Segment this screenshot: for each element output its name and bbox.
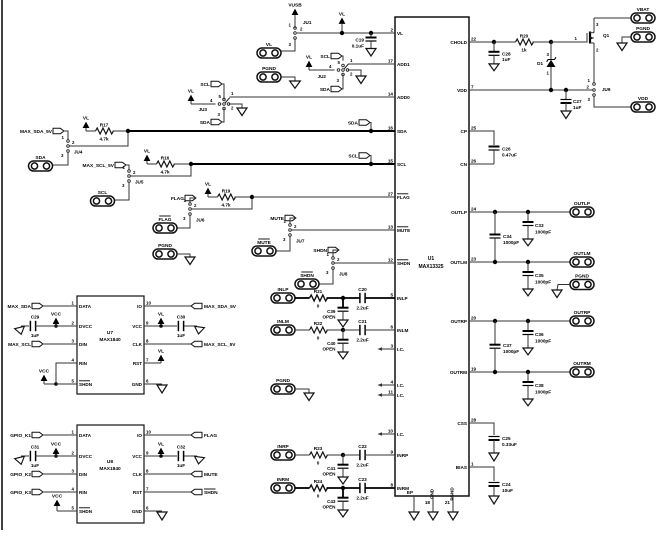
resistor R17 4.7k: [96, 123, 114, 142]
svg-text:GPIO_K1: GPIO_K1: [10, 433, 31, 439]
svg-text:MAX_SCL_5V: MAX_SCL_5V: [83, 163, 115, 169]
U7 pin 5 SHDN: [72, 378, 93, 386]
wire flag to JU4 pin1: [64, 131, 68, 140]
svg-text:SHDN: SHDN: [300, 273, 314, 279]
resistor R24 0: [310, 479, 328, 499]
svg-text:MUTE: MUTE: [204, 472, 218, 478]
svg-text:INLP: INLP: [278, 287, 290, 293]
svg-text:R19: R19: [222, 189, 231, 194]
capacitor C21 2.2uF: [356, 319, 368, 343]
wire C20 to U1: [365, 297, 396, 299]
ground C27: [561, 111, 571, 119]
wire flag to JU8 pin1: [333, 250, 339, 257]
power VL at JU2: [306, 55, 313, 70]
svg-text:VL: VL: [397, 31, 403, 36]
U1 pin 15 SCL: [388, 158, 407, 166]
svg-text:IO: IO: [137, 433, 142, 438]
wire SCL flag to JU2 pin5: [342, 56, 343, 61]
ground lower-left: [304, 393, 314, 401]
ground C25: [489, 453, 499, 461]
ground mid-left: [185, 257, 195, 265]
wire OUTRP to connector: [469, 320, 570, 322]
wire VL to JU2 pin4: [309, 69, 335, 71]
svg-text:SDA: SDA: [320, 87, 331, 93]
svg-text:VL: VL: [306, 55, 312, 61]
wire SHDN pin5: [56, 383, 77, 385]
power VCC at SHDN: [39, 369, 58, 386]
svg-text:SDA: SDA: [35, 155, 46, 161]
svg-text:VL: VL: [144, 149, 150, 155]
svg-text:PGND: PGND: [450, 487, 455, 501]
ground C24: [489, 496, 499, 504]
svg-text:R20: R20: [520, 34, 529, 39]
wire PGND to ground top-right: [622, 37, 631, 43]
ground C31: [15, 456, 29, 466]
svg-text:OPEN: OPEN: [322, 315, 336, 320]
svg-text:OUTRP: OUTRP: [574, 310, 592, 316]
node VDD junction C27: [564, 88, 568, 92]
resistor R16 4.7k: [157, 156, 175, 175]
svg-text:U1: U1: [428, 256, 435, 262]
wire node to C21: [343, 329, 361, 331]
svg-text:MUTE: MUTE: [257, 240, 271, 246]
flag MAX_SCL: [8, 341, 43, 348]
ground C40: [338, 352, 348, 359]
wire PGND to ground mid-left: [177, 254, 190, 257]
svg-text:MAX_SCL: MAX_SCL: [8, 342, 31, 348]
svg-text:2.2uF: 2.2uF: [356, 338, 368, 343]
U1 pin 28 CSS: [457, 417, 476, 425]
svg-text:OUTLP: OUTLP: [574, 201, 591, 207]
U1 pin 19 OUTRM: [450, 366, 477, 374]
svg-text:4.7k: 4.7k: [160, 170, 170, 175]
wire C22 to U1: [365, 454, 396, 456]
node OUTLP junction 2: [526, 210, 530, 214]
svg-text:27: 27: [388, 191, 394, 196]
svg-text:SCL: SCL: [397, 162, 407, 167]
svg-text:I.C.: I.C.: [397, 393, 404, 398]
resistor R19 4.7k: [218, 189, 236, 208]
svg-text:R24: R24: [314, 479, 323, 484]
svg-text:SCL: SCL: [98, 190, 108, 196]
svg-text:C30: C30: [177, 315, 186, 320]
wire JU4 pin3 to SDA connector: [53, 153, 69, 166]
U8 pin 10 IO: [137, 429, 151, 437]
U8 pin 4 RIN: [72, 486, 88, 494]
U1 pin 2 VL: [390, 27, 403, 35]
U1 pin 24 OUTLP: [451, 206, 476, 214]
svg-text:1k: 1k: [521, 48, 527, 53]
svg-text:BIAS: BIAS: [456, 465, 467, 470]
resistor R20 1k: [516, 34, 534, 53]
flag GPIO_K2: [10, 471, 43, 478]
power VL at VCC pin: [144, 312, 177, 328]
U1 pin 22 CHOLD: [450, 36, 476, 44]
wire node to C23: [343, 487, 361, 489]
U1 pin 20 OUTRP: [451, 315, 477, 323]
wire SCL flag drop: [370, 156, 371, 163]
svg-text:15: 15: [388, 158, 394, 163]
U8 pin 8 CLK: [133, 468, 149, 476]
wire PGND to ground: [281, 77, 295, 81]
U7 pin 7 RST: [133, 357, 149, 365]
power VL at VCC pin: [144, 442, 177, 458]
svg-text:R23: R23: [314, 446, 323, 451]
capacitor C43 OPEN: [322, 488, 348, 510]
svg-text:C27: C27: [573, 99, 582, 104]
svg-text:VL: VL: [158, 312, 164, 318]
U8 pin 6 GND: [132, 505, 149, 513]
svg-text:SDA: SDA: [348, 121, 359, 127]
IC U8 MAX1840 level translator: [77, 425, 144, 523]
jumper JU1: [289, 20, 312, 47]
flag FLAG at JU6: [171, 195, 196, 202]
flag GPIO_K3: [10, 489, 43, 496]
wire BIAS to C24: [469, 467, 494, 481]
svg-text:26: 26: [471, 158, 477, 163]
capacitor C22 2.2uF: [356, 444, 368, 468]
svg-text:FLAG: FLAG: [397, 195, 410, 200]
svg-text:0.33uF: 0.33uF: [502, 442, 517, 447]
svg-text:C22: C22: [358, 444, 367, 449]
svg-text:VL: VL: [266, 42, 272, 48]
svg-text:RST: RST: [133, 361, 142, 366]
svg-text:25: 25: [471, 125, 477, 130]
svg-text:DVCC: DVCC: [79, 324, 93, 329]
node OUTRM junction 1: [493, 370, 497, 374]
svg-text:VBAT: VBAT: [637, 7, 650, 13]
ground top-left PGND: [290, 81, 301, 88]
U1 pin 16 SDA: [388, 125, 408, 133]
svg-text:U8: U8: [107, 459, 113, 465]
connector PGND lower-left: [271, 378, 295, 394]
svg-text:MAX1840: MAX1840: [99, 337, 121, 343]
svg-text:11: 11: [388, 389, 393, 394]
wire CP to C26: [469, 131, 494, 145]
wire RIN to SHDN junction: [56, 363, 77, 384]
svg-text:CSS: CSS: [457, 421, 467, 426]
svg-text:13: 13: [388, 224, 394, 229]
svg-text:MUTE: MUTE: [397, 228, 410, 233]
wire R21 to node: [327, 297, 344, 299]
svg-text:DIN: DIN: [79, 342, 88, 347]
wire node to C20: [343, 297, 361, 299]
svg-text:C35: C35: [535, 273, 544, 278]
U7 pin 8 CLK: [133, 338, 149, 346]
wire OUTLP to connector: [469, 211, 570, 213]
node INRP junction: [341, 453, 345, 457]
wire JU3 pin2 to ground: [229, 104, 242, 108]
power VCC at DVCC: [51, 442, 62, 458]
svg-text:8: 8: [390, 482, 393, 487]
svg-text:RIN: RIN: [79, 490, 88, 495]
node OUTRP junction 2: [526, 319, 530, 323]
wire PGND to ground outputs: [557, 285, 570, 291]
svg-text:SHDN: SHDN: [397, 261, 411, 266]
U1 pin 23 OUTLM: [450, 256, 476, 264]
connector SHDN: [295, 272, 319, 289]
wire JU6 pin3 to FLAG connector: [178, 216, 191, 229]
wire R20 to gate node: [533, 41, 550, 43]
flag MAX_SDA_5V: [144, 303, 237, 310]
jumper JU8: [326, 252, 348, 277]
svg-text:C36: C36: [535, 332, 544, 337]
svg-text:R17: R17: [100, 123, 109, 128]
flag MAX_SDA_5V: [20, 128, 64, 135]
svg-text:12: 12: [388, 257, 394, 262]
connector VBAT: [631, 7, 655, 23]
svg-text:VCC: VCC: [51, 312, 62, 318]
capacitor C27 1uF: [561, 90, 582, 111]
svg-text:C25: C25: [502, 436, 511, 441]
wire JU6 pin2 to FLAG node: [192, 199, 253, 209]
svg-text:1uF: 1uF: [31, 333, 39, 338]
svg-text:INLM: INLM: [397, 328, 409, 333]
flag MUTE: [144, 471, 218, 478]
capacitor C41 OPEN: [322, 455, 348, 477]
connector INLM: [271, 319, 295, 335]
svg-text:MAX13325: MAX13325: [418, 264, 443, 270]
wire JU5 pin2 to SCL node: [131, 166, 192, 176]
U7 pin 1 DATA: [72, 300, 92, 308]
svg-text:CN: CN: [460, 162, 467, 167]
svg-text:18: 18: [425, 500, 431, 505]
jumper JU2: [318, 58, 353, 83]
svg-text:1uF: 1uF: [31, 463, 39, 468]
flag MUTE at JU7: [270, 215, 296, 222]
connector SDA: [29, 155, 53, 171]
wire OUTRM to connector: [469, 371, 570, 373]
svg-text:ADD1: ADD1: [397, 62, 410, 67]
power VL at RST: [144, 349, 164, 363]
node INLM junction: [341, 328, 345, 332]
jumper JU4: [61, 135, 83, 158]
wire CHOLD: [469, 41, 492, 43]
svg-text:C38: C38: [535, 383, 544, 388]
wire flag to JU6 pin1: [190, 198, 196, 203]
svg-text:1uF: 1uF: [502, 57, 510, 62]
ground outputs: [552, 290, 562, 298]
connector OUTLP: [570, 201, 594, 217]
svg-text:JU7: JU7: [296, 239, 305, 244]
capacitor C37 1000pF: [490, 321, 520, 372]
svg-text:U7: U7: [107, 330, 113, 336]
svg-text:VUSB: VUSB: [288, 3, 302, 9]
U1 pin 1 BIAS: [456, 461, 474, 469]
svg-text:C40: C40: [327, 341, 336, 346]
capacitor C34 1000pF: [490, 212, 520, 262]
wire GND pin: [144, 383, 162, 385]
svg-text:1: 1: [471, 461, 474, 466]
svg-text:23: 23: [471, 256, 477, 261]
svg-text:C26: C26: [502, 147, 511, 152]
svg-text:INRP: INRP: [397, 453, 408, 458]
ground C19: [366, 49, 376, 57]
svg-text:17: 17: [388, 58, 394, 63]
wire R17 to SDA node: [113, 130, 127, 132]
svg-text:0.1uF: 0.1uF: [352, 44, 364, 49]
ground GND pin: [428, 512, 438, 520]
capacitor C26 0.47uF: [489, 147, 517, 165]
U1 pin 6 INLM: [390, 324, 408, 332]
wire flag to DATA: [43, 305, 77, 307]
svg-text:C20: C20: [358, 287, 367, 292]
svg-text:VL: VL: [188, 89, 194, 95]
U1 pin 26 CN: [460, 158, 476, 166]
ground C33: [523, 239, 533, 246]
svg-text:VL: VL: [83, 116, 89, 122]
node OUTRP junction 1: [493, 319, 497, 323]
svg-text:GPIO_K3: GPIO_K3: [10, 490, 31, 496]
svg-text:C23: C23: [358, 477, 367, 482]
svg-text:PGND: PGND: [276, 378, 290, 384]
wire node to C22: [343, 454, 361, 456]
wire flag to JU7 pin1: [290, 218, 296, 224]
node OUTRM junction 2: [526, 370, 530, 374]
svg-text:5: 5: [390, 292, 393, 297]
U1 pin 5 INLP: [390, 292, 407, 300]
svg-text:C33: C33: [535, 223, 544, 228]
capacitor C24 10uF: [489, 482, 514, 496]
svg-text:CP: CP: [460, 129, 467, 134]
svg-text:1uF: 1uF: [177, 333, 185, 338]
connector FLAG: [153, 216, 177, 233]
U7 pin 6 GND: [132, 378, 149, 386]
ground JU3: [237, 108, 247, 116]
svg-text:C29: C29: [31, 315, 40, 320]
capacitor C19 0.1uF: [352, 31, 377, 49]
jumper JU9: [587, 78, 611, 102]
svg-text:R21: R21: [314, 289, 323, 294]
svg-text:FLAG: FLAG: [204, 433, 217, 439]
connector PGND mid-left: [153, 243, 177, 259]
U1 pin 4 I.C.: [390, 379, 404, 387]
svg-text:SHDN: SHDN: [79, 509, 93, 514]
wire flag to DATA: [43, 434, 77, 436]
ground C38: [523, 399, 533, 406]
wire VL to R19: [208, 196, 218, 198]
flag MAX_SCL_5V: [144, 341, 236, 348]
U8 pin 5 SHDN: [72, 505, 93, 513]
svg-text:DATA: DATA: [79, 304, 92, 309]
U7 pin 4 RIN: [72, 357, 88, 365]
svg-text:1uF: 1uF: [573, 105, 581, 110]
wire SCL flag to JU3 pin5: [222, 84, 224, 100]
U1 pin 7 VDD: [457, 84, 474, 92]
transistor Q1: [590, 18, 610, 53]
svg-text:INRM: INRM: [277, 477, 289, 483]
svg-text:4.7k: 4.7k: [221, 203, 231, 208]
U8 pin 1 DATA: [72, 429, 92, 437]
svg-text:DIN: DIN: [79, 472, 88, 477]
wire R23 to node: [327, 454, 344, 456]
svg-text:INLP: INLP: [397, 296, 408, 301]
U1 pin 10 I.C.: [388, 428, 404, 436]
jumper JU5: [122, 165, 144, 188]
svg-text:16: 16: [388, 125, 394, 130]
svg-text:21: 21: [445, 500, 451, 505]
node OUTLP junction 1: [493, 210, 497, 214]
svg-text:RIN: RIN: [79, 361, 88, 366]
jumper JU6: [183, 198, 205, 223]
svg-text:SHDN: SHDN: [79, 382, 93, 387]
svg-text:VCC: VCC: [51, 442, 62, 448]
wire INLP to resistor: [295, 297, 310, 299]
connector VL: [257, 42, 281, 58]
svg-text:GND: GND: [132, 509, 143, 514]
svg-text:JU6: JU6: [196, 218, 205, 223]
svg-text:DVCC: DVCC: [79, 454, 93, 459]
ground JU2: [356, 76, 366, 84]
power VL at JU3: [188, 89, 195, 104]
ground U7 GND: [157, 385, 167, 393]
wire VL to JU3 pin4: [191, 103, 216, 105]
wire OUTLM to connector: [469, 261, 570, 263]
flag SDA at JU2: [320, 86, 342, 93]
connector PGND top-left: [257, 66, 281, 82]
connector OUTLM: [570, 251, 594, 267]
connector MUTE: [252, 239, 276, 256]
svg-text:ADD0: ADD0: [397, 95, 410, 100]
svg-text:SHDN: SHDN: [204, 490, 218, 496]
svg-text:CLK: CLK: [133, 472, 143, 477]
svg-text:OUTRM: OUTRM: [450, 370, 467, 375]
svg-text:Q1: Q1: [603, 33, 610, 38]
U8 pin 3 DIN: [72, 468, 88, 476]
capacitor C40 OPEN: [322, 330, 348, 352]
node SDA junction: [126, 129, 130, 133]
U1 pin 14 ADD0: [388, 91, 410, 99]
node VDD junction D1: [549, 88, 553, 92]
svg-text:OUTRM: OUTRM: [573, 361, 591, 367]
U8 pin 7 RST: [133, 486, 149, 494]
ground C29: [15, 326, 29, 336]
svg-text:I.C.: I.C.: [397, 432, 404, 437]
U1 pin 21 PGND: [445, 487, 455, 512]
node CHOLD junction C28: [492, 40, 496, 44]
wire JU5 pin3 to SCL connector: [115, 183, 130, 201]
wire I.C. stub pin y=349: [379, 348, 395, 350]
U1 pin 27 FLAG: [388, 191, 410, 199]
U1 pin 3 I.C.: [390, 343, 404, 351]
node FLAG junction: [250, 195, 254, 199]
node SCL junction: [189, 162, 193, 166]
wire flag to RIN: [43, 491, 77, 493]
svg-text:CHOLD: CHOLD: [450, 40, 467, 45]
svg-text:VL: VL: [158, 442, 164, 448]
wire JU4 pin2 to SDA node: [70, 133, 129, 146]
wire JU3 pin3 to SDA flag: [222, 109, 224, 123]
U1 pin 12 SHDN: [388, 257, 411, 265]
svg-text:SDA: SDA: [200, 120, 211, 126]
wire I.C. stub pin y=434: [379, 433, 395, 435]
wire R19 to FLAG node: [235, 196, 251, 198]
wire to R20: [494, 41, 516, 43]
svg-text:MAX_SDA_5V: MAX_SDA_5V: [204, 304, 237, 310]
svg-text:VDD: VDD: [638, 96, 649, 102]
svg-text:19: 19: [471, 366, 477, 371]
wire FLAG net to U1 pin 27: [252, 196, 395, 198]
svg-text:MAX_SDA_5V: MAX_SDA_5V: [20, 129, 53, 135]
svg-text:0.47uF: 0.47uF: [502, 153, 517, 158]
U7 pin 9 VCC: [132, 320, 149, 328]
svg-text:C28: C28: [502, 52, 511, 57]
svg-text:JU2: JU2: [318, 74, 327, 79]
capacitor C33 1000pF: [523, 212, 552, 239]
ground top-right: [617, 43, 627, 51]
U1 pin 18 GND: [425, 488, 435, 512]
wire JU9 pin3 to VDD connector: [594, 97, 631, 108]
